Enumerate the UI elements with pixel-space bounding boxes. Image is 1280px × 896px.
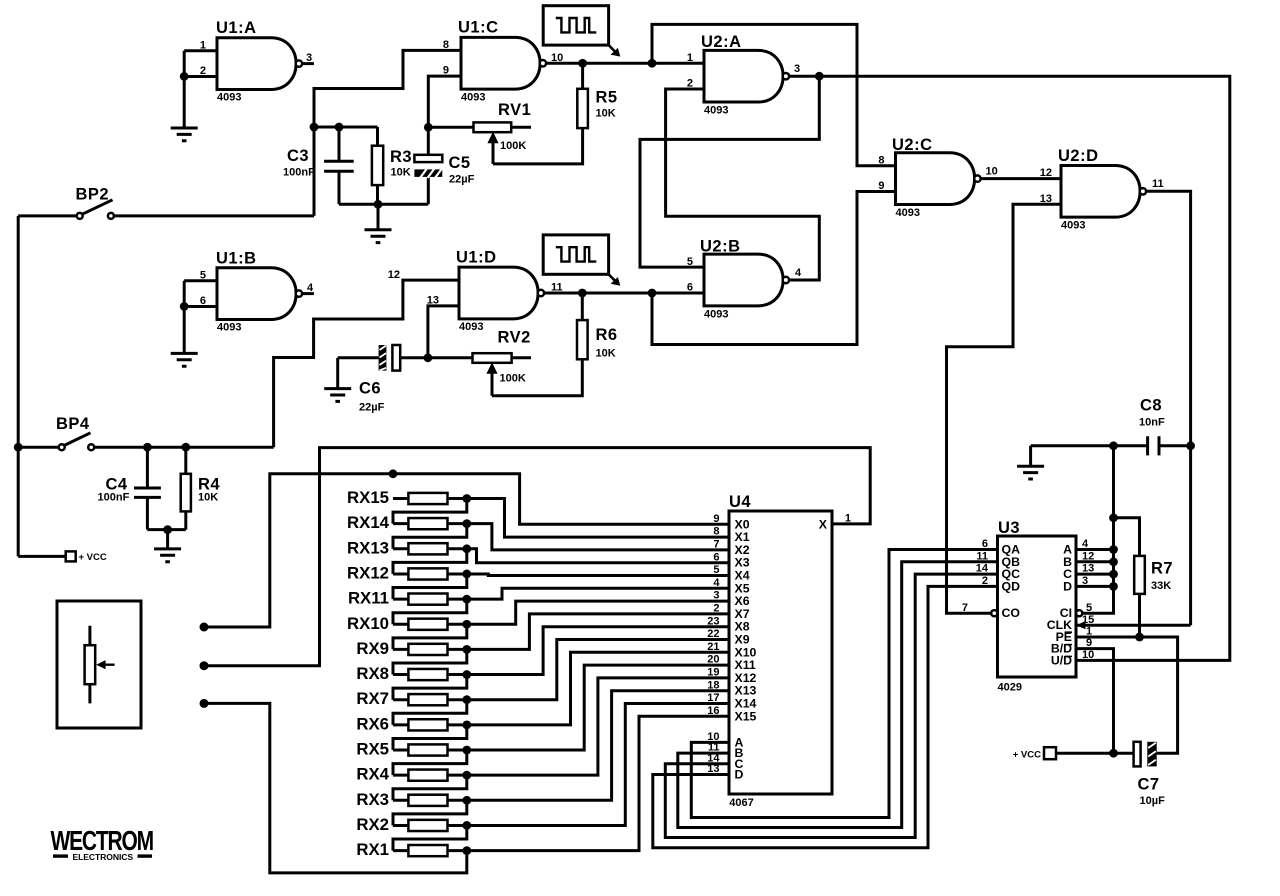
svg-text:4093: 4093 bbox=[896, 207, 920, 219]
wire RX11 tap to U4 pin X5 bbox=[467, 588, 729, 599]
svg-text:22: 22 bbox=[707, 628, 719, 640]
pin U/D number 10 of U3 bbox=[1051, 649, 1094, 667]
svg-text:U2:A: U2:A bbox=[701, 33, 742, 51]
svg-text:U4: U4 bbox=[729, 493, 751, 511]
capacitor C8 10nF bbox=[1031, 397, 1191, 456]
resistor R6 10K bbox=[577, 293, 618, 360]
svg-text:U1:B: U1:B bbox=[216, 249, 257, 267]
svg-text:3: 3 bbox=[794, 63, 800, 75]
wire RX7 tap to U4 pin X9 bbox=[467, 640, 729, 700]
wire dot1 to RX chain top and U4 X0 bbox=[204, 474, 729, 627]
svg-text:RX7: RX7 bbox=[356, 689, 389, 708]
wire BP2 to C3 node to U1:C pin 8 staircase bbox=[314, 50, 461, 216]
svg-text:10K: 10K bbox=[391, 166, 411, 178]
svg-text:QD: QD bbox=[1002, 579, 1021, 593]
ground C3/R3/C5 node bbox=[365, 204, 392, 242]
svg-text:R6: R6 bbox=[596, 326, 618, 344]
pin X4 number 5 of U4 bbox=[713, 564, 749, 582]
pin D number 13 of U4 bbox=[707, 763, 743, 781]
svg-text:RV2: RV2 bbox=[498, 329, 531, 347]
wire U3 QB to U4 pin B bbox=[678, 562, 998, 828]
node R5 top junction bbox=[578, 59, 587, 68]
pin X1 number 8 of U4 bbox=[713, 526, 749, 544]
node U2:A output junction bbox=[815, 72, 824, 81]
resistor RX11 bbox=[348, 589, 467, 608]
wire VCC feed row bbox=[18, 555, 65, 558]
wire RX13 tap to U4 pin X3 bbox=[467, 549, 729, 563]
pin A number 10 of U4 bbox=[707, 731, 743, 749]
svg-text:4093: 4093 bbox=[704, 308, 728, 320]
terminal pot wiper dot 1 bbox=[200, 623, 209, 632]
svg-text:U2:C: U2:C bbox=[892, 136, 933, 154]
svg-text:4: 4 bbox=[713, 577, 720, 589]
pin X3 number 6 of U4 bbox=[713, 551, 749, 569]
svg-text:4093: 4093 bbox=[217, 322, 241, 334]
wire dot2 to U4 X output pin 1 bbox=[204, 448, 870, 666]
svg-text:7: 7 bbox=[713, 539, 719, 551]
svg-text:3: 3 bbox=[713, 590, 719, 602]
node U1:B input junction bbox=[180, 302, 189, 311]
pin X7 number 2 of U4 bbox=[713, 603, 749, 621]
wire branch to U2:C pin 9 bbox=[652, 191, 896, 344]
terminal +VCC left bbox=[66, 551, 107, 563]
wire RX4 tap to U4 pin X12 bbox=[467, 678, 729, 775]
svg-text:4067: 4067 bbox=[729, 797, 753, 809]
svg-text:4093: 4093 bbox=[704, 105, 728, 117]
svg-text:BP2: BP2 bbox=[76, 186, 110, 204]
switch BP2 bbox=[76, 186, 114, 219]
pin X6 number 3 of U4 bbox=[713, 590, 749, 608]
node RX1 right junction bbox=[462, 846, 471, 855]
resistor RX15 bbox=[347, 488, 467, 507]
node RX9 right junction bbox=[462, 645, 471, 654]
wire U2:A output to U2:B pin 5 cross-couple bbox=[640, 76, 819, 267]
svg-text:CO: CO bbox=[1002, 606, 1021, 620]
svg-text:12: 12 bbox=[388, 269, 400, 281]
svg-text:D: D bbox=[1063, 579, 1072, 593]
nand gate U2:A bbox=[687, 33, 800, 117]
svg-text:22µF: 22µF bbox=[449, 174, 475, 186]
wire RX6 tap to U4 pin X10 bbox=[467, 652, 729, 725]
capacitor C7 10uF polarized bbox=[1114, 742, 1166, 807]
pin jam C number 13 of U3 bbox=[1063, 563, 1094, 581]
nand gate U1:D bbox=[388, 249, 563, 333]
svg-text:U3: U3 bbox=[998, 519, 1020, 537]
node RX13 right junction bbox=[462, 544, 471, 553]
nand gate U1:C bbox=[443, 19, 563, 104]
wire BP4 staircase to U1:D pin 12 bbox=[274, 280, 459, 447]
pin C number 14 of U4 bbox=[707, 752, 743, 770]
wire RX12 tap to U4 pin X4 bbox=[467, 574, 729, 576]
svg-text:RX13: RX13 bbox=[347, 538, 389, 557]
svg-text:C5: C5 bbox=[449, 154, 471, 172]
pin QC number 14 of U3 bbox=[976, 563, 1020, 581]
pin PE number 1 of U3 bbox=[1056, 626, 1093, 644]
svg-text:U2:D: U2:D bbox=[1058, 147, 1099, 165]
wire U1:C pin 9 from N2 bbox=[428, 76, 461, 127]
svg-text:10nF: 10nF bbox=[1139, 417, 1165, 429]
node C3/R3 net junction bbox=[310, 123, 319, 132]
node R6 top junction bbox=[578, 289, 587, 298]
svg-text:5: 5 bbox=[713, 564, 719, 576]
svg-text:4: 4 bbox=[795, 267, 802, 279]
wire RX14 right to RX13 left chain link bbox=[393, 524, 467, 549]
wire RX9 tap to U4 pin X7 bbox=[467, 614, 729, 650]
svg-text:10K: 10K bbox=[596, 348, 616, 360]
pin jam D number 3 of U3 bbox=[1063, 575, 1088, 593]
pulse symbol box 2 bbox=[543, 235, 620, 286]
svg-text:D: D bbox=[735, 768, 744, 782]
resistor R3 10K bbox=[372, 127, 412, 204]
svg-text:RX4: RX4 bbox=[356, 765, 389, 784]
svg-text:+ VCC: + VCC bbox=[79, 552, 107, 563]
wire RX2 right to RX1 left chain link bbox=[393, 825, 467, 850]
node jam C junction bbox=[1109, 570, 1118, 579]
svg-text:11: 11 bbox=[1152, 178, 1164, 190]
wire RX1 tap to U4 pin X15 bbox=[467, 716, 729, 850]
svg-text:C7: C7 bbox=[1138, 776, 1160, 794]
node RX2 right junction bbox=[462, 821, 471, 830]
resistor RX7 bbox=[356, 689, 466, 708]
pin X15 number 16 of U4 bbox=[707, 705, 756, 723]
pin X8 number 23 of U4 bbox=[707, 615, 749, 633]
pin QB number 11 of U3 bbox=[976, 550, 1020, 568]
node R7 branch junction bbox=[1109, 513, 1118, 522]
svg-text:19: 19 bbox=[707, 667, 719, 679]
pin X10 number 21 of U4 bbox=[707, 641, 756, 659]
svg-text:RX8: RX8 bbox=[356, 664, 389, 683]
svg-text:2: 2 bbox=[713, 603, 719, 615]
node RX5 right junction bbox=[462, 746, 471, 755]
node C3 tap bbox=[335, 123, 344, 132]
wire U1:D output to U2:B pin 6 bbox=[544, 292, 704, 295]
wire U2:C output to U2:D pin 12 bbox=[981, 177, 1061, 180]
svg-text:RX15: RX15 bbox=[347, 488, 389, 507]
svg-text:R3: R3 bbox=[390, 148, 412, 166]
wire U2:A output node bbox=[789, 75, 819, 78]
ground C4/R4 bbox=[154, 530, 181, 562]
node RX6 right junction bbox=[462, 720, 471, 729]
svg-text:16: 16 bbox=[707, 705, 719, 717]
node N2 junction pin9/RV1/C5 bbox=[424, 123, 433, 132]
svg-text:RX11: RX11 bbox=[348, 589, 389, 608]
svg-text:RX5: RX5 bbox=[356, 740, 389, 759]
svg-text:U1:C: U1:C bbox=[458, 19, 499, 37]
ground U1:A inputs bbox=[171, 76, 198, 140]
logo WECTROM ELECTRONICS bbox=[51, 826, 153, 862]
svg-text:9: 9 bbox=[713, 513, 719, 525]
switch BP4 bbox=[56, 415, 94, 450]
pin X2 number 7 of U4 bbox=[713, 539, 749, 557]
resistor RX10 bbox=[347, 614, 467, 633]
pin B number 11 of U4 bbox=[708, 742, 744, 760]
svg-text:R7: R7 bbox=[1151, 560, 1173, 578]
svg-text:20: 20 bbox=[707, 654, 719, 666]
ground C6 bbox=[324, 358, 351, 402]
pin B/D number 9 of U3 bbox=[1051, 637, 1092, 655]
svg-text:8: 8 bbox=[713, 526, 719, 538]
wire RX15 tap to U4 pin X1 bbox=[467, 499, 729, 538]
wire RV2 wiper to R6 bottom bbox=[492, 359, 582, 396]
svg-text:U1:A: U1:A bbox=[216, 19, 257, 37]
wire U1:B input tie pins 5-6 bbox=[184, 281, 217, 307]
node oscillator 1 branch bbox=[648, 59, 657, 68]
wire RX14 tap to U4 pin X2 bbox=[467, 524, 729, 550]
wire RX8 right to RX7 left chain link bbox=[393, 675, 467, 700]
svg-text:10µF: 10µF bbox=[1140, 795, 1166, 807]
wire RX15 right to RX14 left chain link bbox=[393, 499, 467, 524]
resistor RX4 bbox=[356, 765, 466, 784]
node left rail BP4 junction bbox=[14, 443, 23, 452]
svg-text:9: 9 bbox=[878, 180, 884, 192]
wire U3 QD to U4 pin D bbox=[653, 586, 998, 847]
pin X11 number 20 of U4 bbox=[707, 654, 756, 672]
ground U1:B inputs bbox=[171, 306, 198, 366]
pin X0 number 9 of U4 bbox=[713, 513, 749, 531]
IC U3 4029 counter bbox=[998, 519, 1077, 694]
resistor RX8 bbox=[356, 664, 466, 683]
svg-text:RX14: RX14 bbox=[347, 513, 390, 532]
wire U3 B/D to VCC bbox=[1076, 649, 1114, 754]
resistor R5 10K bbox=[577, 63, 617, 128]
svg-text:100K: 100K bbox=[500, 140, 526, 152]
svg-text:C6: C6 bbox=[359, 380, 381, 398]
node C4/R4 ground junction bbox=[163, 525, 172, 534]
resistor RX3 bbox=[356, 790, 466, 809]
wire U3 QC to U4 pin C bbox=[665, 574, 997, 837]
node jam D junction bbox=[1109, 582, 1118, 591]
svg-text:1: 1 bbox=[845, 513, 851, 525]
svg-text:100nF: 100nF bbox=[283, 166, 315, 178]
ground C8 bbox=[1017, 446, 1044, 479]
wire ground net vertical to jam inputs and CI bbox=[1082, 446, 1113, 613]
svg-text:1: 1 bbox=[687, 52, 693, 64]
resistor RX1 bbox=[356, 840, 466, 859]
pin QD number 2 of U3 bbox=[982, 575, 1020, 593]
wire U3 CLK stub bbox=[1076, 624, 1191, 627]
capacitor C3 100nF bbox=[283, 127, 354, 204]
resistor R7 33K bbox=[1114, 518, 1174, 637]
node RX7 right junction bbox=[462, 695, 471, 704]
svg-text:U1:D: U1:D bbox=[456, 249, 497, 267]
pin X5 number 4 of U4 bbox=[713, 577, 749, 595]
resistor RX14 bbox=[347, 513, 467, 532]
wire U1:A input tie pins 1-2 bbox=[184, 51, 217, 77]
svg-text:U2:B: U2:B bbox=[700, 238, 741, 256]
node jam A junction bbox=[1109, 545, 1118, 554]
pin jam B number 12 of U3 bbox=[1063, 550, 1094, 568]
node RX3 right junction bbox=[462, 796, 471, 805]
terminal +VCC right bbox=[1013, 747, 1114, 760]
svg-text:RX10: RX10 bbox=[347, 614, 389, 633]
svg-text:10K: 10K bbox=[596, 108, 616, 120]
pin QA number 6 of U3 bbox=[982, 538, 1020, 556]
wire dot3 to RX1 chain bottom bbox=[204, 703, 467, 873]
wire RX9 right to RX8 left chain link bbox=[393, 649, 467, 674]
resistor RX9 bbox=[356, 639, 466, 658]
wire BP2 left to rail bbox=[18, 214, 76, 217]
wire RX3 right to RX2 left chain link bbox=[393, 800, 467, 825]
wire U3 QA to U4 pin A bbox=[691, 550, 997, 818]
node C8 left ground net junction bbox=[1109, 441, 1118, 450]
wire U1:A output stub pin 3 bbox=[302, 62, 314, 65]
legend box potentiometer symbol bbox=[57, 601, 141, 728]
svg-text:R5: R5 bbox=[596, 89, 618, 107]
svg-text:RX9: RX9 bbox=[356, 639, 389, 658]
svg-text:7: 7 bbox=[962, 602, 968, 614]
capacitor C6 22uF polarized bbox=[338, 345, 428, 414]
svg-text:8: 8 bbox=[878, 154, 884, 166]
svg-text:X15: X15 bbox=[735, 709, 757, 723]
pin CLK number 15 of U3 with edge triangle bbox=[1047, 614, 1095, 632]
pin X13 number 18 of U4 bbox=[707, 679, 756, 697]
svg-text:100K: 100K bbox=[500, 373, 526, 385]
wire C3/R3/C5 bottom node bbox=[339, 203, 428, 206]
svg-text:6: 6 bbox=[687, 282, 693, 294]
wire BP4 left bbox=[18, 446, 59, 449]
wire U1:C output to U2:A pin 1 bbox=[546, 62, 704, 65]
node R7 bottom to PE junction bbox=[1135, 633, 1144, 642]
wire RX7 right to RX6 left chain link bbox=[393, 700, 467, 725]
svg-text:33K: 33K bbox=[1151, 580, 1171, 592]
svg-text:RX3: RX3 bbox=[356, 790, 389, 809]
wire U1:D pin 13 to C6/RV2 node bbox=[428, 306, 459, 358]
svg-text:4093: 4093 bbox=[459, 321, 483, 333]
wire U3 PE to C7 right bbox=[1076, 637, 1178, 753]
node RX8 right junction bbox=[462, 670, 471, 679]
pulse symbol box 1 bbox=[543, 6, 620, 57]
wire U1:B output stub pin 4 bbox=[302, 292, 314, 295]
svg-text:10: 10 bbox=[986, 166, 998, 178]
wire RX10 right to RX9 left chain link bbox=[393, 624, 467, 649]
pin X9 number 22 of U4 bbox=[707, 628, 749, 646]
svg-text:RX6: RX6 bbox=[356, 714, 389, 733]
wire C4/R4 bottom node bbox=[147, 528, 185, 531]
svg-text:23: 23 bbox=[707, 615, 719, 627]
svg-text:100nF: 100nF bbox=[98, 492, 130, 504]
wire RX3 tap to U4 pin X13 bbox=[467, 691, 729, 801]
resistor RX12 bbox=[347, 563, 467, 582]
wire U3 jam input stubs A B C D bbox=[1076, 550, 1114, 587]
nand gate U1:A bbox=[200, 19, 312, 104]
pin jam A number 4 of U3 bbox=[1063, 538, 1089, 556]
wire RX4 right to RX3 left chain link bbox=[393, 775, 467, 800]
resistor RX13 bbox=[347, 538, 467, 557]
svg-text:X: X bbox=[819, 517, 828, 531]
svg-text:4093: 4093 bbox=[1061, 219, 1085, 231]
wire RX6 right to RX5 left chain link bbox=[393, 725, 467, 750]
node C4 tap bbox=[143, 443, 152, 452]
svg-text:22µF: 22µF bbox=[359, 402, 385, 414]
IC U4 4067 multiplexer bbox=[729, 493, 832, 809]
wire RV1 wiper to R5 bottom bbox=[493, 128, 583, 164]
node RX15 right junction bbox=[462, 494, 471, 503]
node RX15 left tap bbox=[389, 469, 398, 478]
potentiometer RV1 100K bbox=[428, 101, 531, 164]
terminal pot wiper dot 3 bbox=[200, 699, 209, 708]
node RX4 right junction bbox=[462, 771, 471, 780]
pin CO number 7 of U3 with bubble bbox=[962, 602, 1021, 620]
node oscillator 2 branch bbox=[648, 289, 657, 298]
node C8 right to CLK wire junction bbox=[1186, 441, 1195, 450]
svg-text:BP4: BP4 bbox=[56, 415, 90, 433]
svg-text:C8: C8 bbox=[1140, 397, 1162, 415]
wire U2:B output to U2:A pin 2 cross-couple bbox=[666, 89, 820, 280]
node U1:A input junction bbox=[180, 72, 189, 81]
node RX12 right junction bbox=[462, 570, 471, 579]
node RX10 right junction bbox=[462, 620, 471, 629]
wire RX11 right to RX10 left chain link bbox=[393, 599, 467, 624]
node VCC C7 junction bbox=[1109, 749, 1118, 758]
wire RX5 tap to U4 pin X11 bbox=[467, 665, 729, 750]
svg-text:RV1: RV1 bbox=[498, 101, 531, 119]
resistor RX2 bbox=[356, 815, 466, 834]
pin X output number 1 of U4 bbox=[819, 513, 851, 532]
svg-text:17: 17 bbox=[707, 692, 719, 704]
svg-text:RX1: RX1 bbox=[356, 840, 389, 859]
wire RX13 right to RX12 left chain link bbox=[393, 549, 467, 574]
svg-text:10: 10 bbox=[1082, 649, 1094, 661]
pin X14 number 17 of U4 bbox=[707, 692, 756, 710]
wire branch to U2:C pin 8 bbox=[652, 24, 896, 165]
wire BP2 right to node bbox=[114, 214, 314, 217]
svg-text:4029: 4029 bbox=[998, 682, 1022, 694]
svg-text:21: 21 bbox=[707, 641, 719, 653]
svg-text:ELECTRONICS: ELECTRONICS bbox=[73, 852, 134, 862]
pin X12 number 19 of U4 bbox=[707, 667, 756, 685]
wire RX2 tap to U4 pin X14 bbox=[467, 704, 729, 826]
nand gate U2:C bbox=[878, 136, 997, 219]
wire U2:D pin 13 to U3 CO bbox=[947, 204, 1062, 613]
wire RX5 right to RX4 left chain link bbox=[393, 750, 467, 775]
capacitor C4 100nF bbox=[98, 447, 161, 529]
node R4 tap bbox=[181, 443, 190, 452]
svg-text:4093: 4093 bbox=[217, 92, 241, 104]
svg-text:U/D: U/D bbox=[1051, 653, 1072, 667]
wire U2:A output feedback to U3 U/D bbox=[819, 76, 1230, 660]
terminal pot wiper dot 2 bbox=[200, 661, 209, 670]
capacitor C5 22uF polarized bbox=[414, 127, 474, 204]
svg-text:C3: C3 bbox=[287, 147, 309, 165]
potentiometer RV2 100K bbox=[428, 329, 531, 396]
wire BP4 right to staircase bbox=[94, 446, 274, 449]
nand gate U2:D bbox=[1040, 147, 1164, 231]
wire RX8 tap to U4 pin X8 bbox=[467, 627, 729, 675]
svg-text:10K: 10K bbox=[198, 492, 218, 504]
wire C3 node row bbox=[314, 126, 378, 129]
node C6/RV2 junction bbox=[424, 353, 433, 362]
node ground junction bbox=[374, 200, 383, 209]
node jam B junction bbox=[1109, 557, 1118, 566]
resistor R4 10K bbox=[181, 447, 221, 529]
svg-text:6: 6 bbox=[713, 551, 719, 563]
wire U2:D output to U3 CLK bbox=[1146, 191, 1191, 625]
resistor RX5 bbox=[356, 740, 466, 759]
wire RX12 right to RX11 left chain link bbox=[393, 574, 467, 599]
svg-text:4093: 4093 bbox=[461, 91, 485, 103]
wire RX10 tap to U4 pin X6 bbox=[467, 601, 729, 624]
wire left rail bbox=[17, 216, 20, 557]
svg-text:RX2: RX2 bbox=[356, 815, 389, 834]
node RX11 right junction bbox=[462, 595, 471, 604]
node RX14 right junction bbox=[462, 519, 471, 528]
svg-text:+ VCC: + VCC bbox=[1013, 750, 1041, 761]
nand gate U1:B bbox=[200, 249, 314, 333]
svg-text:RX12: RX12 bbox=[347, 563, 389, 582]
nand gate U2:B bbox=[687, 238, 802, 321]
resistor RX6 bbox=[356, 714, 466, 733]
pin CI number 5 of U3 with bubble bbox=[1060, 602, 1092, 620]
